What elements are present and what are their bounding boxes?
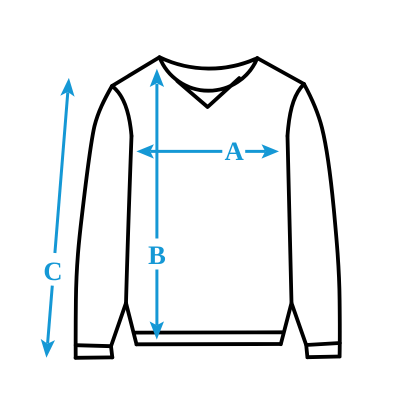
arrow B shaft upper — [155, 84, 158, 239]
right hem corner line — [281, 303, 292, 344]
arrow A shaft right — [245, 150, 265, 153]
arrow C shaft lower — [48, 286, 53, 344]
left armhole seam — [112, 86, 132, 136]
right shoulder line — [257, 58, 304, 84]
right sleeve outer edge — [304, 84, 340, 356]
svg-text:B: B — [148, 240, 166, 270]
arrow A head right — [262, 144, 280, 158]
svg-text:C: C — [43, 256, 62, 286]
right armhole seam — [288, 84, 305, 136]
v-neck trim — [177, 78, 239, 107]
left shoulder line — [112, 57, 160, 86]
left cuff top — [76, 345, 111, 346]
arrow A shaft left — [151, 150, 223, 153]
left cuff bottom — [76, 355, 113, 359]
arrow B head top — [150, 69, 164, 87]
right cuff bottom — [307, 355, 339, 360]
left body side seam — [126, 136, 132, 303]
svg-text:A: A — [225, 136, 244, 166]
arrow B shaft lower — [155, 270, 158, 326]
arrow C head bottom — [41, 339, 55, 358]
arrow B head bottom — [150, 321, 164, 339]
left hem corner line — [126, 303, 137, 344]
right body side seam — [288, 136, 292, 303]
left sleeve outer edge — [76, 86, 112, 358]
arrow A head left — [136, 144, 154, 158]
hem bottom line — [136, 342, 280, 346]
left sleeve inner edge — [111, 303, 126, 346]
arrow C shaft upper — [55, 92, 68, 253]
neckline back curve — [160, 57, 258, 68]
arrow C head top — [60, 78, 74, 97]
collar front curve — [160, 57, 258, 91]
right cuff side edge — [306, 345, 307, 357]
right sleeve inner edge — [292, 303, 307, 345]
hem top line — [134, 330, 283, 334]
right cuff top — [306, 343, 340, 345]
left cuff side edge — [111, 346, 112, 357]
